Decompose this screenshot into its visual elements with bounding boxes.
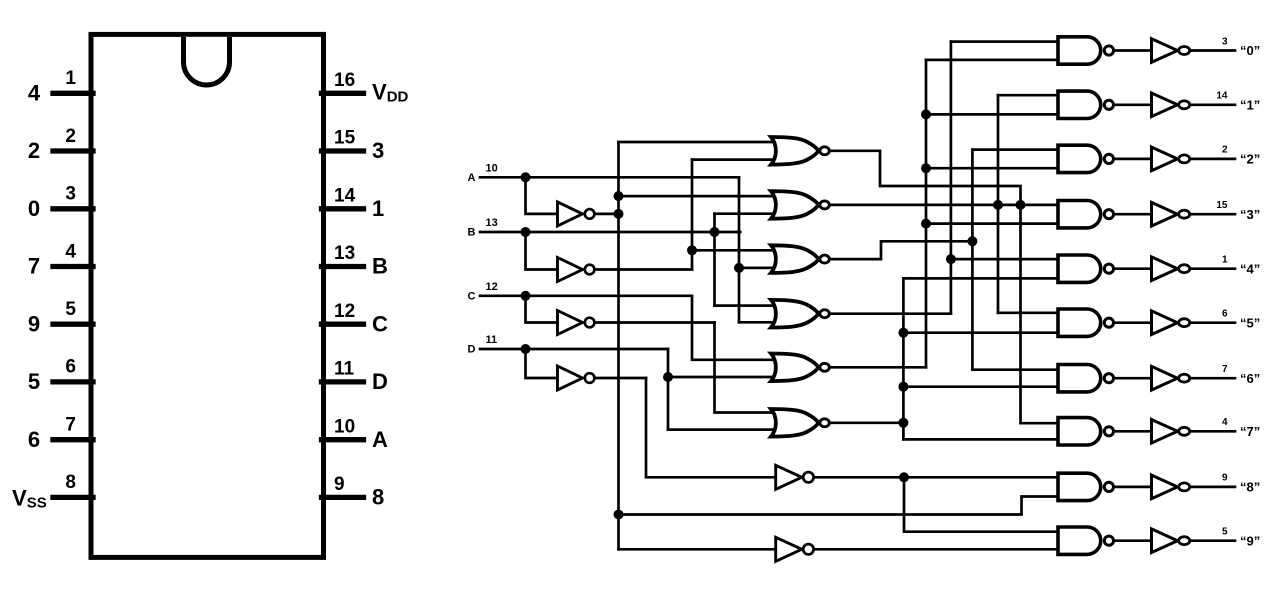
pin 2 stub (left) (53, 148, 93, 153)
node: B riser junction (710, 227, 720, 237)
NAND gate N1 (output 1) (1058, 91, 1101, 118)
wire: A to NOR G4 bottom input (739, 321, 777, 324)
pin 4 stub (left) (53, 264, 93, 269)
NAND gate N9 (output 9) (1058, 527, 1101, 554)
wire: G6 output line (829, 421, 903, 424)
wire: G3 output step (829, 241, 972, 259)
wire: NOT-C output (595, 321, 715, 324)
pin 7 stub (left) (53, 437, 93, 442)
svg-text:13: 13 (334, 243, 355, 264)
svg-text:9: 9 (28, 311, 40, 336)
output inverter V2 (1152, 147, 1178, 171)
wire: output line "8" (pin 9) (1191, 486, 1235, 489)
svg-text:2: 2 (1222, 145, 1228, 156)
IC package DIP-16 body (91, 34, 324, 557)
svg-text:15: 15 (334, 128, 356, 149)
svg-text:2: 2 (65, 126, 76, 147)
wire: G4 vertical bus (950, 42, 953, 314)
wire: B vertical riser (713, 214, 716, 306)
wire: G1 output net (829, 151, 1058, 423)
NAND gate N3 (output 3) (1058, 201, 1101, 228)
node: G5 / NAND3 branch (921, 219, 931, 229)
wire: output line "1" (pin 14) (1191, 103, 1235, 106)
wire: NOT-D output (595, 377, 646, 380)
wire: output line "2" (pin 2) (1191, 158, 1235, 161)
wire: NAND0 output to inverter (1113, 49, 1151, 52)
wire: output line "4" (pin 1) (1191, 267, 1235, 270)
wire: NOT-B output to bus (595, 268, 692, 271)
wire: G6 to NAND4 bottom input (903, 277, 1058, 280)
svg-text:6: 6 (1222, 309, 1228, 320)
wire: G2 output line (829, 204, 1021, 207)
pin 14 stub (right) (322, 206, 364, 211)
pin 6 stub (left) (53, 379, 93, 384)
svg-text:2: 2 (28, 138, 40, 163)
pin 15 stub (right) (322, 148, 364, 153)
wire: G2 to NAND1 top input (998, 94, 1058, 97)
svg-text:10: 10 (334, 416, 355, 437)
svg-text:D: D (372, 369, 388, 394)
svg-text:“8”: “8” (1240, 480, 1260, 495)
wire: G6 branch to NAND5 bottom input (903, 331, 1058, 334)
NAND gate N2 (output 2) (1058, 145, 1101, 172)
NAND gate N6 (output 6) (1058, 365, 1101, 392)
svg-text:C: C (468, 291, 476, 303)
output inverter V1 (1152, 93, 1178, 117)
wire: NOT-B branch to NOR G3 top input (692, 249, 777, 252)
wire: output line "3" (pin 15) (1191, 213, 1235, 216)
node: C input junction (521, 291, 531, 301)
svg-text:3: 3 (1222, 36, 1228, 47)
buffer U-9A (A double inverter) (776, 537, 802, 561)
svg-text:9: 9 (334, 474, 345, 495)
pin 16 stub (right) (322, 91, 364, 96)
wire: G4 branch to NAND4 top input (951, 258, 1058, 261)
node: NOT-B / G3 branch (687, 245, 697, 255)
svg-text:7: 7 (28, 254, 40, 279)
pin 1 stub (left) (53, 91, 93, 96)
svg-text:10: 10 (486, 162, 498, 174)
svg-text:5: 5 (1222, 527, 1228, 538)
wire: output line "7" (pin 4) (1191, 430, 1235, 433)
svg-text:A: A (468, 172, 476, 184)
wire: NOT-A branch to NOR G2 top input (619, 195, 778, 198)
wire: G5 branch to NAND2 bottom input (926, 167, 1058, 170)
wire: NOT-A to buffer U-9A input (619, 548, 776, 551)
wire: D branch to inverter U-D (526, 349, 558, 378)
node: B input junction (521, 227, 531, 237)
svg-text:B: B (372, 254, 388, 279)
pin 5 stub (left) (53, 322, 93, 327)
node: G1 / NAND3 branch (1016, 200, 1026, 210)
wire: B to NOR G4 top input (715, 304, 778, 307)
wire: NAND5 output to inverter (1113, 321, 1151, 324)
wire: NAND4 output to inverter (1113, 267, 1151, 270)
svg-text:“7”: “7” (1240, 424, 1260, 439)
wire: D vertical dropper (667, 349, 670, 430)
node: D / G5 branch (663, 372, 673, 382)
svg-text:“6”: “6” (1240, 371, 1260, 386)
wire: output line "5" (pin 6) (1191, 321, 1235, 324)
wire: NOT-B vertical bus (691, 160, 694, 270)
wire: C dropper to NOR G5 top input (692, 296, 777, 360)
svg-text:13: 13 (486, 217, 498, 229)
node: G3 output junction (967, 236, 977, 246)
svg-text:1: 1 (65, 68, 76, 89)
wire: G2 vertical bus (997, 95, 1000, 313)
node: A / G3 branch (734, 263, 744, 273)
wire: NOT-A output to bus (595, 213, 619, 216)
svg-text:12: 12 (486, 281, 498, 293)
wire: G4 output line (829, 312, 951, 315)
svg-text:“4”: “4” (1240, 261, 1260, 276)
NOR gate G6 (C·D̄ term) (771, 409, 818, 437)
inverter U-A (input A) (558, 202, 583, 226)
svg-text:“9”: “9” (1240, 533, 1260, 548)
pin 9 stub (right) (322, 495, 364, 500)
svg-text:3: 3 (372, 138, 384, 163)
node: G5 / NAND2 branch (921, 163, 931, 173)
svg-text:0: 0 (28, 196, 40, 221)
wire: NOT-B to NOR G1 bottom input (692, 158, 777, 161)
output inverter V6 (1152, 366, 1178, 390)
node: NOT-A / NAND8 branch (614, 510, 624, 520)
wire: NAND3 output to inverter (1113, 213, 1151, 216)
wire: NOT-C dropper to NOR G6 top input (715, 323, 778, 413)
wire: NAND8 output to inverter (1113, 486, 1151, 489)
wire: D branch to NAND9 top input (904, 477, 1058, 531)
output inverter V0 (1152, 39, 1178, 63)
pin 13 stub (right) (322, 264, 364, 269)
NOR gate G1 (A·B term) (771, 137, 818, 165)
inverter U-D (input D) (558, 366, 583, 390)
package index notch (184, 37, 230, 85)
wire: D to NOR G6 bottom input (668, 428, 777, 431)
svg-text:5: 5 (28, 369, 40, 394)
wire: buffer U-9A output to NAND9 bottom input (814, 548, 1058, 551)
wire: output line "9" (pin 5) (1191, 539, 1235, 542)
output inverter V3 (1152, 202, 1178, 226)
output inverter V5 (1152, 311, 1178, 335)
node: NOT-A output junction (614, 209, 624, 219)
wire: buffer U-8A output to NAND8 top input (814, 476, 1058, 479)
NOR gate G2 (A·B̄ term) (771, 191, 818, 219)
svg-text:4: 4 (28, 81, 41, 106)
svg-text:“3”: “3” (1240, 207, 1260, 222)
wire: G6 vertical bus (902, 278, 905, 439)
NAND gate N7 (output 7) (1058, 418, 1101, 445)
node: G6 / NAND6 branch (898, 382, 908, 392)
svg-text:15: 15 (1216, 200, 1228, 211)
svg-text:14: 14 (334, 186, 356, 207)
svg-text:16: 16 (334, 70, 355, 91)
inverter U-C (input C) (558, 311, 583, 335)
wire: NAND6 output to inverter (1113, 377, 1151, 380)
pin 11 stub (right) (322, 379, 364, 384)
svg-text:5: 5 (65, 299, 76, 320)
wire: G3 to NAND6 top input (972, 368, 1058, 371)
wire: G5 branch to NAND3 bottom input (926, 222, 1058, 225)
node: G6 / NAND5 branch (898, 328, 908, 338)
svg-text:9: 9 (1222, 473, 1228, 484)
node: D input junction (521, 344, 531, 354)
wire: output line "6" (pin 7) (1191, 377, 1235, 380)
svg-text:1: 1 (1222, 255, 1228, 266)
wire: A branch to NOR G3 bottom input (739, 267, 777, 270)
NOR gate G4 (Ā·B̄ term) (771, 300, 818, 328)
node: G6 output junction (898, 418, 908, 428)
NOR gate G3 (Ā·B term) (771, 245, 818, 273)
svg-text:6: 6 (65, 357, 76, 378)
svg-text:3: 3 (65, 184, 76, 205)
node: G2 output junction (993, 200, 1003, 210)
wire: NOT-D dropper to buffer U-8A input (646, 378, 776, 477)
wire: G3 to NAND2 top input (972, 148, 1058, 151)
wire: NAND9 output to inverter (1113, 539, 1151, 542)
wire: input D line (pin 11) (480, 348, 668, 351)
output inverter V7 (1152, 420, 1178, 444)
svg-text:11: 11 (486, 334, 498, 346)
wire: input A line (pin 10) (480, 176, 739, 179)
wire: input B line (pin 13) (480, 231, 740, 234)
svg-text:8: 8 (372, 485, 384, 510)
wire: D branch to NOR G5 bottom input (668, 376, 777, 379)
pin 10 stub (right) (322, 437, 364, 442)
pin 3 stub (left) (53, 206, 93, 211)
NAND gate N5 (output 5) (1058, 309, 1101, 336)
wire: A branch to inverter U-A (526, 177, 558, 214)
wire: G4 to NAND0 top input (951, 40, 1058, 43)
svg-text:A: A (372, 427, 388, 452)
svg-text:11: 11 (334, 359, 355, 380)
svg-text:14: 14 (1216, 91, 1228, 102)
svg-text:“5”: “5” (1240, 315, 1260, 330)
svg-text:“2”: “2” (1240, 152, 1260, 167)
wire: NAND2 output to inverter (1113, 158, 1151, 161)
wire: G2 to NAND5 top input (998, 311, 1058, 314)
svg-text:“0”: “0” (1240, 43, 1260, 58)
svg-text:4: 4 (1222, 417, 1228, 428)
output inverter V4 (1152, 257, 1178, 281)
node: A input junction (521, 172, 531, 182)
wire: G5 vertical bus (925, 60, 928, 367)
wire: B branch to inverter U-B (526, 232, 558, 270)
wire: G5 output line (829, 366, 926, 369)
wire: G3 vertical bus (971, 150, 974, 370)
node: buffered-D / NAND9 branch (899, 472, 909, 482)
wire: B to NOR G2 bottom input (715, 212, 778, 215)
svg-text:12: 12 (334, 301, 355, 322)
svg-text:B: B (468, 227, 476, 239)
wire: input C line (pin 12) (480, 294, 692, 297)
wire: G1 branch to NAND3 top input (1021, 204, 1059, 207)
wire: NOT-A vertical bus (617, 142, 620, 549)
svg-text:1: 1 (372, 196, 384, 221)
wire: A vertical dropper (738, 177, 741, 322)
NAND gate N8 (output 8) (1058, 473, 1101, 500)
wire: C branch to inverter U-C (526, 296, 558, 323)
NOR gate G5 (C̄·D̄ term) (771, 354, 818, 382)
svg-text:8: 8 (65, 472, 76, 493)
pin 8 stub (left) (53, 495, 93, 500)
wire: G6 branch to NAND6 bottom input (903, 385, 1058, 388)
buffer U-8A (D double inverter) (776, 465, 802, 489)
wire: NAND7 output to inverter (1113, 430, 1151, 433)
wire: NOT-A branch to NAND8 lower input (619, 497, 1059, 515)
wire: NAND1 output to inverter (1113, 103, 1151, 106)
pin 12 stub (right) (322, 322, 364, 327)
svg-text:“1”: “1” (1240, 97, 1260, 112)
svg-text:D: D (468, 344, 476, 356)
wire: output line "0" (pin 3) (1191, 49, 1235, 52)
NAND gate N0 (output 0) (1058, 37, 1101, 64)
output inverter V8 (1152, 475, 1178, 499)
svg-text:6: 6 (28, 427, 40, 452)
output inverter V9 (1152, 529, 1178, 553)
NAND gate N4 (output 4) (1058, 255, 1101, 282)
wire: NOT-A to NOR G1 top input (619, 141, 778, 144)
svg-text:C: C (372, 311, 388, 336)
wire: G5 to NAND0 bottom input (926, 59, 1058, 62)
node: G5 / NAND1 branch (921, 109, 931, 119)
wire: G6 to NAND7 bottom input (903, 438, 1058, 441)
node: G4 / NAND4 branch (946, 254, 956, 264)
svg-text:7: 7 (65, 415, 76, 436)
wire: G5 branch to NAND1 bottom input (926, 113, 1058, 116)
node: NOT-A / G2 branch (614, 191, 624, 201)
inverter U-B (input B) (558, 258, 583, 282)
svg-text:4: 4 (65, 241, 76, 262)
svg-text:7: 7 (1222, 364, 1228, 375)
